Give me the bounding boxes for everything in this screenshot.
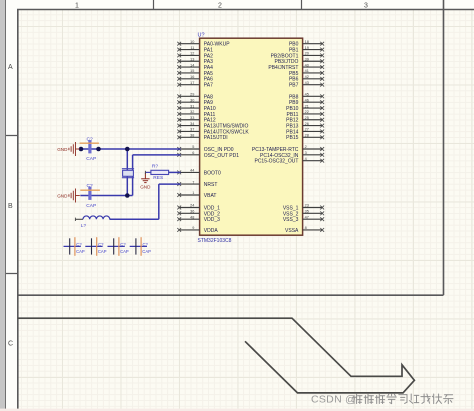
svg-text:PC15-OSC32_OUT: PC15-OSC32_OUT [254,159,298,165]
crystal Y? [122,169,134,178]
svg-text:1: 1 [75,3,79,10]
pin 12 PA2 (left) [177,52,213,60]
pin 32 PA11 (left) [177,110,215,118]
svg-text:38: 38 [190,134,194,138]
svg-text:37: 37 [190,128,194,132]
op-amp substitute: microcontroller IC U? STM32F103C8 body [200,38,303,235]
pin 45 PB8 (right) [289,93,324,101]
svg-text:VBAT: VBAT [204,193,217,199]
svg-text:18: 18 [305,40,309,44]
capacitor C? CAP (decoupling row #1) [64,237,85,256]
svg-text:46: 46 [305,98,309,102]
svg-text:C?: C? [98,242,104,247]
svg-text:VSS_3: VSS_3 [283,217,299,223]
svg-text:L?: L? [81,223,87,228]
svg-text:24: 24 [190,204,194,208]
svg-text:VSSA: VSSA [285,228,299,234]
svg-text:3: 3 [364,3,368,10]
svg-text:16: 16 [190,75,194,79]
svg-text:BOOT0: BOOT0 [204,170,221,176]
svg-text:4: 4 [305,157,307,161]
capacitor C? CAP (decoupling row #3) [108,237,129,256]
pin 41 PB5 (right) [289,69,324,77]
inductor L? [75,216,109,228]
svg-text:1: 1 [192,191,194,195]
svg-text:A: A [8,64,13,71]
capacitor C? (top, OSC_IN) [80,136,99,162]
pin 22 PB11 (right) [287,110,325,118]
wire inductor to NRST [110,218,159,220]
svg-text:35: 35 [305,210,309,214]
pin 5 OSC_IN PD0 (left) [177,145,233,153]
svg-text:44: 44 [190,169,194,173]
svg-text:CAP: CAP [98,249,107,254]
pin 39 PB3/JTDO (right) [274,57,324,65]
pin 9 VDDA (left) [177,226,218,234]
svg-text:34: 34 [190,122,194,126]
resistor R? RES (BOOT0 pulldown) [145,164,168,181]
pin 37 PA14/JTCK/SWCLK (left) [177,128,249,136]
junction [125,193,130,198]
svg-text:CAP: CAP [120,249,129,254]
pin 23 VSS_1 (right) [283,204,324,212]
pin 26 PB13 (right) [286,122,324,130]
pin 40 PB4/JNTRST (right) [268,63,324,71]
svg-text:NRST: NRST [204,182,218,188]
wire NRST vertical [158,184,160,219]
svg-text:3: 3 [305,151,307,155]
svg-text:48: 48 [190,215,194,219]
svg-text:17: 17 [190,81,194,85]
svg-text:2: 2 [218,3,222,10]
svg-text:22: 22 [305,110,309,114]
pin 3 PC14-OSC32_IN (right) [260,151,324,159]
ground GND (middle, at C? OSC_OUT) [57,189,80,203]
pin 7 NRST (left) [177,180,217,188]
svg-text:RES: RES [153,175,163,181]
svg-text:23: 23 [305,204,309,208]
svg-text:47: 47 [305,215,309,219]
svg-text:CSDN @: CSDN @ [311,393,356,405]
svg-text:14: 14 [190,63,194,67]
svg-text:36: 36 [190,210,194,214]
pin 20 PB2/BOOT1 (right) [271,52,324,60]
svg-text:15: 15 [190,69,194,73]
svg-text:STM32F103C8: STM32F103C8 [198,238,232,244]
svg-text:C?: C? [87,136,93,142]
svg-text:PA15/JTDI: PA15/JTDI [204,135,228,141]
pin 30 PA9 (left) [177,98,213,106]
svg-text:GND: GND [57,147,68,152]
wire OSC_OUT net bottom run [80,195,132,197]
pin 15 PA5 (left) [177,69,213,77]
svg-text:41: 41 [305,69,309,73]
pin 33 PA12 (left) [177,116,216,124]
svg-text:13: 13 [190,57,194,61]
value label STM32F103C8 [198,238,232,244]
pin 16 PA6 (left) [177,75,213,83]
svg-text:6: 6 [192,151,194,155]
pin 29 PA8 (left) [177,93,213,101]
pin 10 PA0-WKUP (left) [177,40,230,48]
svg-text:PB15: PB15 [286,135,298,141]
wire OSC_OUT to pin 6 [133,154,181,156]
pin 17 PA7 (left) [177,81,213,89]
pin 34 PA13/JTMS/SWDIO (left) [177,122,248,130]
pin 8 VSSA (right) [285,226,324,234]
wire OSC_OUT vertical riser [132,155,134,196]
pin 38 PA15/JTDI (left) [177,134,227,142]
pin 19 PB1 (right) [289,46,324,54]
pin 1 VBAT (left) [177,191,216,199]
pin 36 VDD_2 (left) [177,210,220,218]
pin 28 PB15 (right) [286,134,324,142]
pin 11 PA1 (left) [177,46,213,54]
pin 27 PB14 (right) [286,128,324,136]
svg-text:C: C [8,341,13,348]
svg-text:30: 30 [190,98,194,102]
pin 21 PB10 (right) [286,104,324,112]
svg-text:VDD_3: VDD_3 [204,217,220,223]
pin 2 PC13-TAMPER-RTC (right) [252,145,324,153]
pin 44 BOOT0 (left) [177,169,221,177]
junction [79,147,84,152]
svg-text:42: 42 [305,75,309,79]
svg-text:CAP: CAP [142,249,151,254]
pin 43 PB7 (right) [289,81,324,89]
svg-text:27: 27 [305,128,309,132]
svg-text:C?: C? [120,242,126,247]
pin 31 PA10 (left) [177,104,216,112]
svg-text:GND: GND [57,193,68,198]
pin 4 PC15-OSC32_OUT (right) [254,157,324,165]
pin 25 PB12 (right) [286,116,324,124]
svg-text:9: 9 [192,226,194,230]
svg-text:B: B [8,203,13,210]
svg-text:VDDA: VDDA [204,228,219,234]
svg-text:33: 33 [190,116,194,120]
pin 35 VSS_2 (right) [283,210,324,218]
svg-text:U?: U? [198,32,205,38]
svg-text:PA7: PA7 [204,83,213,89]
svg-text:39: 39 [305,57,309,61]
svg-text:21: 21 [305,104,309,108]
pin 18 PB0 (right) [289,40,324,48]
pin 13 PA3 (left) [177,57,213,65]
wire BOOT0 to R? [169,171,181,173]
svg-text:25: 25 [305,116,309,120]
svg-text:29: 29 [190,93,194,97]
pin 46 PB9 (right) [289,98,324,106]
svg-text:5: 5 [192,145,194,149]
wire OSC_IN net: GND cap C? to pin 5 [81,148,181,150]
wire crystal vertical [126,149,128,196]
capacitor C? CAP (decoupling row #4) [130,237,151,256]
svg-text:28: 28 [305,134,309,138]
capacitor C? (middle, OSC_OUT) [80,183,100,209]
drawn arrow annotation (bottom of sheet) [18,318,415,393]
svg-text:CAP: CAP [86,156,96,162]
watermark CSDN @... [311,393,453,405]
capacitor C? CAP (decoupling row #2) [85,237,106,256]
svg-text:31: 31 [190,104,194,108]
svg-text:PB7: PB7 [289,83,299,89]
svg-text:8: 8 [305,226,307,230]
svg-text:C?: C? [143,242,149,247]
svg-text:R?: R? [152,164,158,170]
svg-text:32: 32 [190,110,194,114]
ground GND (below resistor R?) [141,172,149,182]
svg-text:OSC_OUT PD1: OSC_OUT PD1 [204,153,239,159]
svg-text:26: 26 [305,122,309,126]
pin 14 PA4 (left) [177,63,213,71]
svg-text:43: 43 [305,81,309,85]
svg-text:20: 20 [305,52,309,56]
svg-text:CAP: CAP [86,203,96,209]
svg-text:10: 10 [190,40,194,44]
svg-text:GND: GND [140,184,151,189]
pin 6 OSC_OUT PD1 (left) [177,151,239,159]
ground GND (top, at C? OSC_IN) [57,142,80,156]
pin 47 VSS_3 (right) [283,215,324,223]
wire NRST horizontal [159,183,181,185]
svg-text:C?: C? [76,242,82,247]
pin 48 VDD_3 (left) [177,215,220,223]
junction [96,147,101,152]
svg-text:40: 40 [305,63,309,67]
designator U? [198,32,205,38]
junction [125,147,130,152]
svg-text:19: 19 [305,46,309,50]
svg-text:C?: C? [87,183,93,189]
svg-text:7: 7 [192,180,194,184]
svg-text:CAP: CAP [76,249,85,254]
svg-text:2: 2 [305,145,307,149]
svg-text:12: 12 [190,52,194,56]
svg-text:11: 11 [190,46,194,50]
svg-text:45: 45 [305,93,309,97]
pin 42 PB6 (right) [289,75,324,83]
pin 24 VDD_1 (left) [177,204,220,212]
